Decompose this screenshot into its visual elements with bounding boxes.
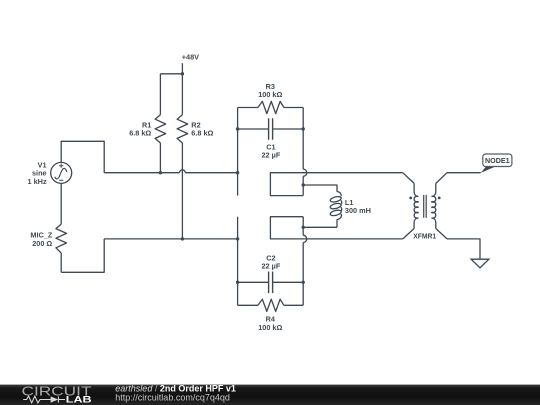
wire MIC_Z bottom jog [61,239,104,272]
junction C2 left [236,281,239,284]
junction C1 left [236,127,239,130]
hop right vertical over wire to XFMR [303,169,307,176]
wire bottom rail [104,238,237,240]
svg-text:22 µF: 22 µF [261,262,280,271]
junction L1 bottom tee [302,226,305,229]
junction C-left/top rail [236,171,239,174]
svg-text:+48V: +48V [182,53,199,62]
transformer XFMR1 [409,183,440,240]
svg-text:XFMR1: XFMR1 [413,231,436,240]
junction +48V [181,72,184,75]
wire C-block right vertical (top) [302,108,304,196]
junction C1 right [302,127,305,130]
node NODE1 flag [481,154,512,173]
wire C-block right vertical (bottom) [302,217,304,306]
junction R1/top rail [159,171,162,174]
resistor MIC_Z [30,183,66,272]
resistor R1 [129,74,165,173]
capacitor C1 [238,118,304,160]
wire XFMR secondary top diagonal [436,173,447,184]
svg-text:LAB: LAB [66,395,92,405]
resistor R2 [177,74,213,239]
wire top rail [104,172,237,174]
wire rect loop bottom [270,217,402,239]
wire XFMR primary bottom diagonal [403,229,414,239]
wire +48V stub [181,63,183,74]
svg-text:http://circuitlab.com/cq7q4qd: http://circuitlab.com/cq7q4qd [115,392,230,402]
hop right vertical over wire to XFMR bottom [303,235,307,242]
svg-text:22 µF: 22 µF [261,151,280,160]
wire to ground [447,239,480,259]
wire XFMR primary top diagonal [403,173,414,184]
ground [471,259,489,268]
resistor R4 [238,299,304,332]
logo zigzag wire [23,396,65,403]
svg-text:300 mH: 300 mH [345,206,371,215]
junction C2-left/bottom rail [236,237,239,240]
inductor L1 [330,192,371,228]
wire L1 bottom jog [303,226,337,228]
svg-text:1 kHz: 1 kHz [28,177,47,186]
wire C-block left vertical (bottom) [237,217,239,306]
capacitor C2 [238,253,304,293]
junction C2 right [302,281,305,284]
wire rect loop top [270,173,402,196]
voltage source V1 [28,160,72,185]
svg-text:200 Ω: 200 Ω [32,239,52,248]
svg-text:NODE1: NODE1 [485,156,510,165]
wire to NODE1 [447,172,481,174]
wire L1 top jog [303,185,337,192]
wire C-block left vertical (top) [237,108,239,196]
node +48V label [182,53,199,62]
junction R2/bottom rail [181,237,184,240]
logo diode [51,396,59,402]
wire +48V horizontal [160,73,182,75]
junction L1 top tee [302,183,305,186]
resistor R3 [238,82,304,114]
wire XFMR secondary bottom diagonal [436,229,447,239]
svg-text:100 kΩ: 100 kΩ [258,90,282,99]
svg-text:6.8 kΩ: 6.8 kΩ [129,129,151,138]
svg-text:6.8 kΩ: 6.8 kΩ [191,129,213,138]
svg-text:100 kΩ: 100 kΩ [258,323,282,332]
wire V1 top jog [61,141,104,172]
hop top rail over R2 [180,170,186,173]
